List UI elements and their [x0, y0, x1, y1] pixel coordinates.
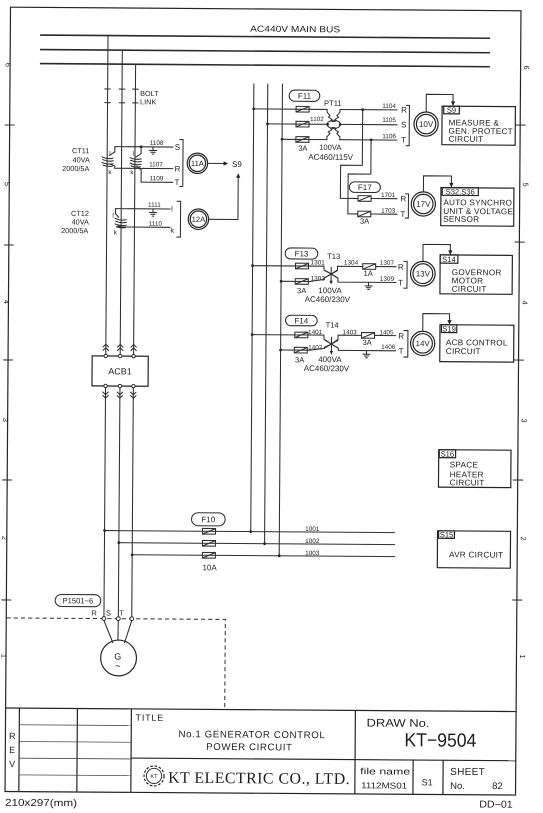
- CT11 winding b (line3): [130, 158, 141, 168]
- wire 10V to S9 box: [426, 94, 453, 112]
- bracket F13: [404, 261, 407, 288]
- box S32,S36 auto synchro: [441, 188, 514, 227]
- fuse F17-2: [358, 211, 371, 217]
- fuse group label F14: [285, 315, 317, 326]
- bracket CT11: [180, 140, 184, 187]
- svg-text:4: 4: [2, 300, 11, 304]
- svg-text:1304: 1304: [344, 260, 359, 267]
- svg-text:T14: T14: [326, 321, 339, 330]
- svg-text:S: S: [175, 143, 180, 152]
- svg-text:3A: 3A: [362, 338, 372, 347]
- fuse 3A right (F14): [361, 333, 374, 339]
- svg-text:l: l: [112, 213, 113, 220]
- svg-text:1002: 1002: [305, 538, 320, 545]
- svg-text:2000/5A: 2000/5A: [62, 164, 89, 173]
- voltmeter 17V: [411, 192, 435, 216]
- svg-text:AC440V MAIN BUS: AC440V MAIN BUS: [250, 24, 340, 35]
- wire 1309: [338, 280, 396, 282]
- svg-text:82: 82: [492, 781, 503, 792]
- svg-text:400VA: 400VA: [318, 355, 342, 364]
- svg-text:KT−9504: KT−9504: [404, 730, 477, 752]
- fuse F17-1: [358, 196, 371, 202]
- svg-text:1405: 1405: [379, 329, 394, 336]
- CT11 lead k-b: [137, 166, 142, 182]
- zone tick left y360: [4, 359, 13, 361]
- ACB1 pin top line3: [132, 354, 135, 357]
- ACB1 drawout chevrons bottom line2: [117, 392, 122, 395]
- zone tick left y597: [2, 599, 11, 601]
- svg-text:k: k: [130, 169, 134, 176]
- ground on 1111: [149, 209, 156, 216]
- svg-text:1301: 1301: [310, 259, 325, 266]
- wire 14V to S19 box: [423, 314, 450, 332]
- fuse group label F10: [191, 513, 225, 526]
- voltmeter 13V: [410, 261, 435, 286]
- distribution vline3 T: [279, 84, 282, 556]
- svg-text:ACB1: ACB1: [108, 366, 132, 376]
- wire drop line3 T: [134, 64, 136, 356]
- svg-text:S14: S14: [442, 255, 456, 264]
- CT11 lead k-a: [110, 164, 115, 168]
- svg-text:1106: 1106: [382, 133, 396, 140]
- svg-text:1406: 1406: [381, 344, 396, 351]
- box S16 space heater: [438, 450, 511, 488]
- plug label P1501~6: [55, 594, 101, 606]
- svg-text:11A: 11A: [191, 159, 205, 168]
- svg-text:T: T: [398, 278, 403, 287]
- title block top line: [6, 708, 516, 712]
- svg-text:S15: S15: [440, 530, 454, 539]
- svg-text:1703: 1703: [381, 208, 396, 215]
- bus T phase: [40, 64, 490, 67]
- bolt link on line2: [119, 89, 125, 103]
- wire 1107: [115, 167, 173, 169]
- svg-text:1108: 1108: [150, 140, 164, 147]
- wire 1304: [338, 265, 363, 267]
- box S19 ACB control: [440, 325, 514, 362]
- junction vline2 F10: [263, 542, 266, 545]
- svg-text:No.: No.: [450, 781, 465, 792]
- wire F11 S left: [267, 123, 327, 125]
- svg-text:1303: 1303: [311, 275, 326, 282]
- circuit breaker ACB1: [92, 356, 148, 386]
- wire 1406: [338, 349, 395, 351]
- dashed enclosure: [6, 618, 225, 709]
- svg-text:R: R: [9, 731, 16, 741]
- draw-no column divider: [354, 710, 357, 793]
- CT11 lead l-a: [110, 147, 115, 156]
- svg-text:P1501~6: P1501~6: [63, 596, 94, 605]
- ACB1 drawout chevrons bottom line1: [103, 392, 108, 395]
- svg-text:TITLE: TITLE: [136, 713, 165, 723]
- junction vline2 F11: [266, 122, 269, 125]
- svg-text:LINK: LINK: [140, 97, 156, 106]
- fuse F10-1: [203, 528, 216, 534]
- svg-text:6: 6: [522, 66, 531, 70]
- svg-text:1112MS01: 1112MS01: [361, 780, 407, 790]
- svg-text:1105: 1105: [382, 117, 396, 124]
- voltmeter 10V: [414, 112, 438, 136]
- svg-text:2000/5A: 2000/5A: [61, 226, 88, 235]
- ACB1 drawout chevrons top line3: [131, 344, 136, 347]
- wire 1402: [281, 348, 325, 350]
- box S15 AVR: [437, 531, 510, 568]
- zone tick right y475: [513, 479, 522, 481]
- sheet cell divider: [442, 760, 444, 794]
- svg-text:POWER CIRCUIT: POWER CIRCUIT: [206, 742, 292, 754]
- svg-text:1104: 1104: [382, 103, 396, 110]
- fuse F11-3: [296, 137, 309, 143]
- svg-text:CIRCUIT: CIRCUIT: [452, 285, 487, 294]
- svg-text:AC460/115V: AC460/115V: [308, 153, 353, 162]
- svg-text:V: V: [9, 759, 15, 769]
- junction vline1 F14: [251, 333, 254, 336]
- ACB1 pin bottom line2: [118, 384, 121, 387]
- svg-text:100VA: 100VA: [319, 143, 342, 152]
- svg-text:R: R: [91, 608, 96, 617]
- svg-text:F14: F14: [294, 316, 308, 325]
- CT12 winding (line2): [115, 218, 126, 228]
- svg-text:3: 3: [520, 419, 529, 423]
- svg-text:1003: 1003: [305, 550, 320, 557]
- junction vline3 F11: [281, 138, 284, 141]
- wire 1303: [281, 279, 324, 282]
- fuse group label F11: [289, 90, 320, 101]
- svg-text:1109: 1109: [150, 175, 164, 182]
- zone tick right y240: [515, 241, 524, 243]
- ammeter 11A: [187, 153, 208, 174]
- wire 17V to S32 box: [423, 176, 451, 192]
- svg-text:R: R: [398, 332, 404, 341]
- svg-text:14V: 14V: [416, 339, 431, 348]
- wire 1105: [340, 123, 397, 125]
- svg-text:file name: file name: [360, 766, 410, 776]
- wire F11 R left: [254, 108, 327, 111]
- svg-text:1401: 1401: [308, 329, 323, 336]
- distribution vline1 R: [251, 84, 254, 532]
- wire 12A to S9: [209, 176, 239, 219]
- svg-text:AVR CIRCUIT: AVR CIRCUIT: [449, 550, 504, 559]
- svg-text:3A: 3A: [297, 286, 307, 295]
- svg-text:12A: 12A: [192, 215, 207, 224]
- svg-text:10A: 10A: [202, 563, 217, 572]
- svg-text:CT11: CT11: [72, 146, 89, 155]
- svg-text:1309: 1309: [380, 276, 395, 283]
- svg-text:k: k: [170, 226, 174, 235]
- junction vline3 F10: [278, 554, 281, 557]
- svg-text:6: 6: [4, 63, 13, 67]
- svg-text:4: 4: [520, 301, 529, 305]
- svg-text:R: R: [398, 263, 404, 272]
- svg-text:AC460/230V: AC460/230V: [304, 364, 350, 373]
- svg-text:3A: 3A: [360, 217, 370, 226]
- svg-text:k: k: [108, 169, 112, 176]
- svg-text:S32,S36: S32,S36: [446, 187, 475, 196]
- ACB1 pin top line1: [104, 354, 107, 357]
- bracket F14: [404, 331, 408, 358]
- transformer T14: [324, 335, 339, 352]
- svg-text:1: 1: [518, 655, 527, 659]
- wire 1106: [340, 139, 397, 141]
- svg-text:F11: F11: [298, 92, 312, 101]
- svg-text:F13: F13: [295, 249, 309, 258]
- zone tick right y594: [512, 599, 521, 601]
- CT12 lead l: [116, 209, 119, 218]
- ground on 1309: [365, 282, 372, 289]
- svg-text:3: 3: [1, 418, 10, 422]
- svg-text:R: R: [401, 106, 407, 115]
- svg-text:3A: 3A: [298, 144, 308, 153]
- fuse F11-2: [296, 121, 309, 127]
- svg-text:AC460/230V: AC460/230V: [305, 295, 351, 304]
- company logo: [144, 766, 164, 786]
- svg-text:13V: 13V: [416, 269, 431, 278]
- svg-text:PT11: PT11: [324, 99, 342, 108]
- rev row line 3: [19, 757, 131, 760]
- ammeter 12A: [188, 209, 209, 230]
- svg-text:T: T: [175, 178, 180, 187]
- rev row line 2: [19, 740, 131, 743]
- junction line3 wire1003: [131, 553, 134, 556]
- bracket F17: [405, 194, 408, 218]
- ACB1 pin top line2: [118, 354, 121, 357]
- generator lead S: [117, 621, 119, 641]
- wire 13V to S14 box: [423, 244, 450, 261]
- junction 1106 drop: [370, 139, 373, 142]
- bus S phase: [40, 50, 490, 53]
- fuse F13-1: [295, 263, 308, 269]
- svg-text:l: l: [133, 151, 134, 158]
- svg-text:F10: F10: [201, 515, 215, 524]
- svg-text:CIRCUIT: CIRCUIT: [448, 135, 483, 144]
- box S14 governor motor: [440, 255, 512, 294]
- wire F11 T left: [282, 138, 327, 140]
- fuse F10-2: [202, 540, 215, 546]
- svg-text:R: R: [175, 165, 181, 174]
- junction vline1 F10: [249, 530, 252, 533]
- svg-text:1102: 1102: [310, 116, 324, 123]
- wire drop line2 S: [120, 50, 122, 356]
- fuse F14-1: [295, 332, 308, 338]
- svg-text:1107: 1107: [149, 161, 163, 168]
- wire 1703: [371, 213, 397, 215]
- CT11 winding a (line1): [102, 157, 113, 167]
- fuse 1A (F13): [363, 264, 376, 270]
- svg-text:T: T: [119, 608, 124, 617]
- svg-text:1001: 1001: [305, 526, 320, 533]
- bracket F11: [406, 105, 409, 145]
- wire 1001: [105, 531, 395, 533]
- fuse F10-3: [202, 552, 215, 558]
- svg-text:S9: S9: [232, 160, 242, 169]
- svg-text:l: l: [171, 204, 173, 213]
- svg-text:S1: S1: [422, 777, 433, 787]
- ACB1 drawout chevrons bottom line3: [131, 392, 136, 395]
- wire drop 1106 to F17-2: [348, 140, 371, 214]
- zone tick left y478: [3, 479, 12, 481]
- ACB1 pin bottom line3: [132, 384, 135, 387]
- svg-text:CIRCUIT: CIRCUIT: [450, 478, 485, 487]
- junction 1104 drop: [361, 108, 364, 111]
- generator G: [101, 640, 137, 676]
- junction PT11 S right: [339, 123, 342, 126]
- svg-text:SPACE: SPACE: [450, 460, 479, 469]
- svg-text:SENSOR: SENSOR: [443, 215, 479, 224]
- svg-text:KT ELECTRIC CO., LTD.: KT ELECTRIC CO., LTD.: [168, 770, 350, 788]
- rev table divider 2 / title col: [130, 709, 133, 792]
- CT11 lead l-b: [136, 147, 141, 157]
- svg-text:2: 2: [0, 536, 9, 540]
- bolt link on line3: [133, 89, 139, 103]
- zone tick right y357: [514, 359, 523, 361]
- svg-text:KT: KT: [150, 774, 158, 780]
- rev row line 1: [19, 724, 131, 727]
- svg-text:2: 2: [519, 537, 528, 541]
- wire 1104: [340, 109, 397, 111]
- svg-text:G: G: [114, 652, 121, 662]
- wire drop line1 R: [106, 36, 108, 356]
- wire 1301: [253, 265, 324, 267]
- ACB1 drawout chevrons top line1: [103, 344, 108, 347]
- svg-text:~: ~: [115, 661, 121, 672]
- junction vline1 F11: [252, 107, 255, 110]
- svg-text:DD−01: DD−01: [479, 799, 513, 810]
- wire 1108: [115, 146, 173, 148]
- svg-text:T: T: [400, 210, 405, 219]
- svg-text:F17: F17: [358, 183, 372, 192]
- junction PT11 S left: [326, 123, 329, 126]
- fuse F11-1: [296, 106, 309, 112]
- svg-text:No.1 GENERATOR CONTROL: No.1 GENERATOR CONTROL: [178, 729, 325, 741]
- svg-text:1403: 1403: [343, 329, 358, 336]
- bus R phase: [40, 35, 490, 38]
- wire 11A to S9: [208, 162, 225, 164]
- distribution vline2 S: [265, 84, 268, 544]
- svg-text:S16: S16: [441, 450, 455, 459]
- rev table divider 1: [76, 708, 79, 791]
- svg-text:5: 5: [521, 183, 530, 187]
- junction line2 wire1002: [117, 541, 120, 544]
- fuse F14-2: [294, 347, 307, 353]
- svg-text:1402: 1402: [308, 344, 323, 351]
- wire 1701: [371, 198, 397, 200]
- fuse group label F13: [285, 248, 318, 259]
- generator lead R: [104, 620, 113, 642]
- svg-text:T: T: [401, 136, 406, 145]
- wire 1110: [117, 226, 170, 228]
- svg-text:1: 1: [0, 654, 8, 658]
- zone tick left y243: [4, 244, 13, 246]
- junction CT11 l-b to 1108: [140, 145, 143, 148]
- svg-text:DRAW No.: DRAW No.: [366, 718, 429, 730]
- svg-text:S9: S9: [447, 106, 456, 115]
- wire 1003: [132, 555, 394, 557]
- svg-text:1701: 1701: [381, 192, 396, 199]
- svg-text:1111: 1111: [148, 202, 161, 209]
- wire 1109: [141, 181, 173, 183]
- svg-text:S19: S19: [442, 324, 456, 333]
- fuse F13-2: [295, 279, 308, 285]
- junction line1 wire1001: [103, 529, 106, 532]
- wire drop 1104 to F17-1: [340, 110, 362, 199]
- wire 1111: [116, 208, 170, 210]
- voltmeter 14V: [410, 331, 434, 355]
- svg-text:S: S: [401, 120, 406, 129]
- ACB1 pin bottom line1: [104, 384, 107, 387]
- wire 1405: [375, 334, 396, 336]
- ACB1 drawout chevrons top line2: [118, 344, 123, 347]
- junction vline1 F13: [251, 264, 254, 267]
- svg-text:5: 5: [3, 182, 12, 186]
- wire 1307: [376, 266, 396, 268]
- file name cell divider: [412, 760, 414, 794]
- svg-text:1A: 1A: [364, 269, 374, 278]
- svg-text:E: E: [9, 745, 15, 755]
- svg-text:1307: 1307: [380, 260, 395, 267]
- svg-text:S: S: [106, 608, 111, 617]
- svg-text:k: k: [114, 229, 118, 236]
- svg-text:10V: 10V: [419, 120, 434, 129]
- wire 1401: [252, 334, 324, 337]
- svg-text:CIRCUIT: CIRCUIT: [446, 347, 481, 356]
- wire 1002: [119, 543, 395, 545]
- transformer T13: [324, 266, 338, 281]
- wire 1403: [338, 334, 361, 336]
- ground on 1406: [363, 351, 370, 358]
- svg-text:T: T: [399, 347, 404, 356]
- zone tick right y124: [516, 124, 525, 126]
- junction vline3 F13: [280, 280, 283, 283]
- svg-text:R: R: [400, 194, 406, 203]
- bracket CT12: [177, 201, 181, 237]
- svg-text:17V: 17V: [416, 200, 431, 209]
- svg-text:100VA: 100VA: [318, 286, 342, 295]
- generator lead T: [125, 621, 132, 643]
- title/company divider: [131, 758, 516, 761]
- bolt link on line1: [105, 89, 111, 103]
- CT12 lead k: [118, 226, 121, 227]
- junction vline3 F14: [279, 349, 282, 352]
- fuse group label F17: [349, 182, 380, 193]
- box S9 measure circuit: [442, 106, 516, 145]
- svg-text:210x297(mm): 210x297(mm): [5, 798, 77, 810]
- svg-text:1110: 1110: [149, 221, 163, 228]
- ground on 1108: [149, 147, 156, 154]
- svg-text:SHEET: SHEET: [450, 767, 485, 778]
- zone tick left y124: [5, 124, 14, 126]
- REV column divider: [18, 708, 21, 791]
- rev row line 4: [19, 774, 131, 777]
- svg-text:T13: T13: [327, 252, 340, 261]
